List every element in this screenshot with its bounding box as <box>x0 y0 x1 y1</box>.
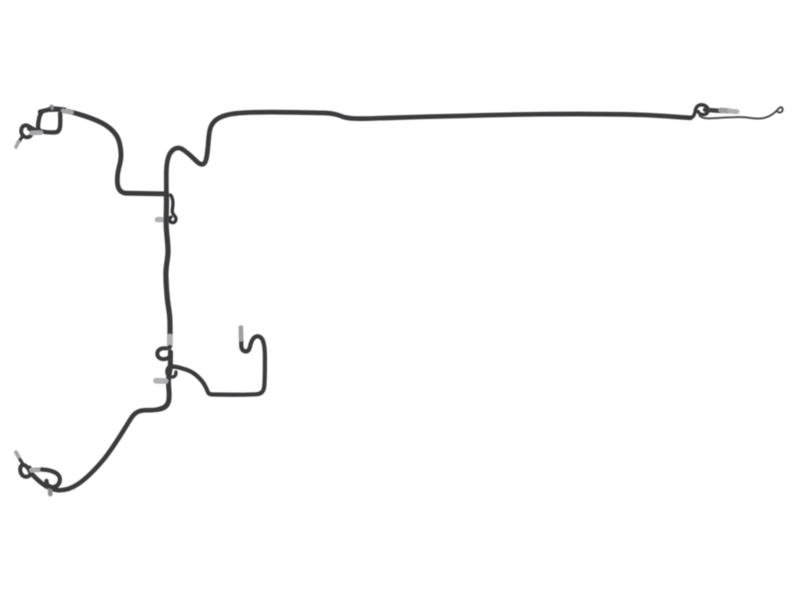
fitting gray connector at bottom-left <box>32 467 43 473</box>
wire right-end loop <box>691 105 709 118</box>
wire pigtail loop on riser <box>157 347 170 359</box>
wire coil wrap of branch around riser <box>167 366 176 377</box>
fitting bar at top-left (rail) <box>40 109 53 112</box>
tube stub with gray tip at top-left <box>19 136 24 143</box>
wire main feed tube from left fitting down to lower junction <box>68 111 167 194</box>
wire curl beside upper vertical riser <box>170 195 176 223</box>
fitting tapered blade of top-left bar <box>50 107 66 112</box>
fitting gray tip of bottom-left stub <box>16 452 18 457</box>
wire main vertical riser <box>166 193 170 337</box>
fitting gray connector right of bar <box>63 111 72 113</box>
wire riser lower section to bottom turn <box>159 352 170 409</box>
tube stub bar exiting right-end loop <box>705 110 722 111</box>
wire rounded rectangular loop below top-left bar <box>38 113 60 133</box>
fitting gray tip of top-left stub <box>16 142 18 147</box>
fitting small gray tab on top of bar <box>50 106 54 109</box>
wire left extension from loop into pigtail <box>21 125 42 137</box>
wire bottom-left pigtail loop <box>20 465 31 477</box>
clip light gray beside riser at y=219 <box>158 217 167 223</box>
fitting gray vertical connector on branch end <box>239 328 244 340</box>
wire lower-left tail from riser turn to bottom-left end <box>30 409 160 490</box>
clip light gray on lower riser <box>156 378 166 384</box>
fitting gray connector at top-left pigtail <box>32 130 42 135</box>
wire riser with double bend up to long horizontal run <box>166 112 690 196</box>
fitting light gray sleeve on riser <box>167 337 173 347</box>
wire branch from riser to right with J-hook <box>170 336 265 394</box>
fitting gray connector at right end <box>721 108 729 114</box>
tube stub with gray tip at bottom-left <box>19 457 24 465</box>
wire thin hook wire at far right <box>700 107 783 118</box>
wire bottom-left end lobe <box>42 470 60 488</box>
clip dark on bottom-left tail <box>48 487 53 495</box>
